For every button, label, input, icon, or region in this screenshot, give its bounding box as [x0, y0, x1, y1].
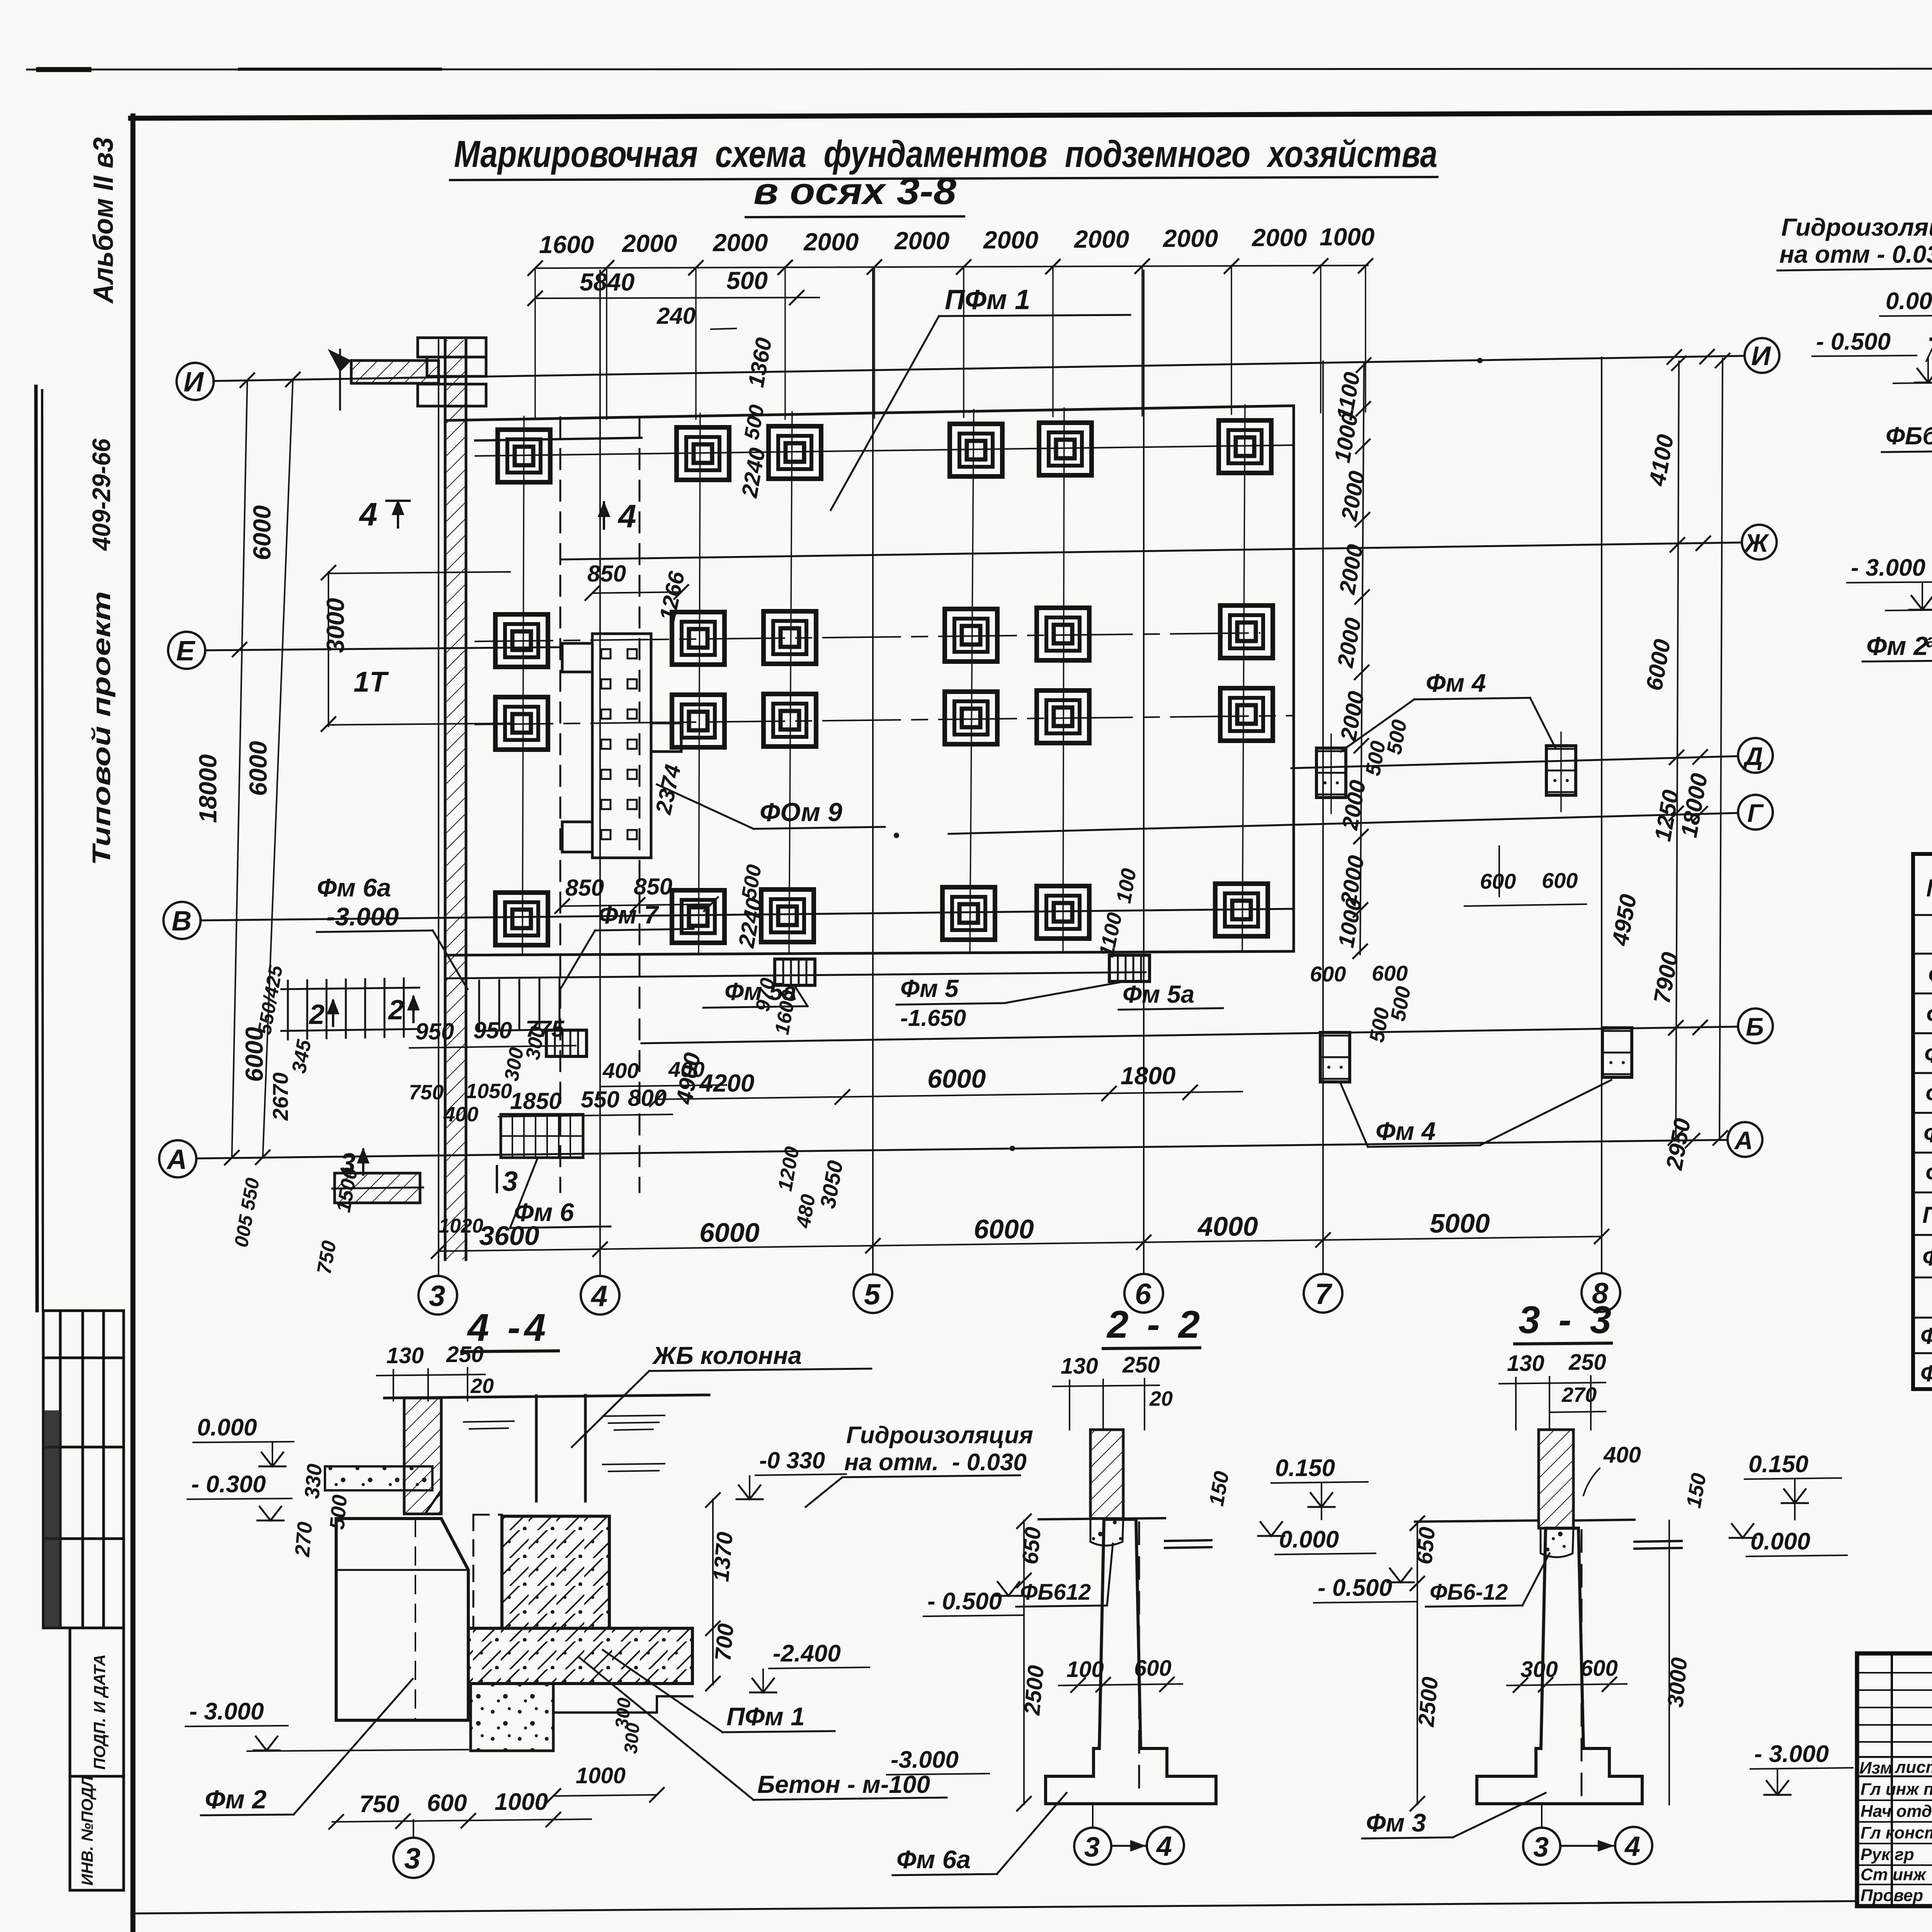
svg-text:- 0.300: - 0.300	[191, 1471, 266, 1498]
header bar arrow	[328, 349, 351, 372]
svg-text:Гидроизоляция: Гидроизоляция	[1781, 213, 1932, 241]
svg-text:Провер: Провер	[1861, 1886, 1923, 1905]
axis circle 4	[581, 1276, 619, 1315]
svg-text:4000: 4000	[1197, 1211, 1258, 1242]
svg-text:6000: 6000	[240, 1027, 268, 1082]
tail dot-dash on Г line left	[894, 833, 899, 838]
svg-text:0.150: 0.150	[1748, 1451, 1808, 1478]
svg-text:700: 700	[710, 1622, 738, 1662]
hatched bar on А left	[335, 1173, 420, 1203]
svg-text:0.000: 0.000	[1750, 1528, 1810, 1555]
svg-text:20: 20	[1149, 1387, 1173, 1410]
svg-text:Гидроизоляция: Гидроизоляция	[846, 1422, 1033, 1449]
axis line В	[201, 909, 1294, 920]
table row lines	[1913, 915, 1932, 1353]
foundation pads row Е upper	[495, 614, 548, 667]
svg-text:750: 750	[359, 1791, 399, 1818]
svg-text:ЖБ колонна: ЖБ колонна	[652, 1342, 802, 1369]
svg-text:1600: 1600	[539, 231, 594, 259]
floor line s22	[1039, 1518, 1165, 1519]
svg-text:1800: 1800	[1121, 1062, 1175, 1090]
axis circle В	[163, 902, 201, 939]
svg-text:4: 4	[1156, 1831, 1172, 1862]
axis 4 vertical	[599, 270, 601, 1275]
svg-text:500: 500	[325, 1494, 352, 1531]
svg-text:- 3.000: - 3.000	[1754, 1741, 1829, 1767]
svg-text:0.000: 0.000	[1279, 1526, 1339, 1553]
dimension 500 row2	[797, 297, 819, 298]
column lines	[536, 1395, 585, 1501]
svg-text:Нач отд: Нач отд	[1861, 1802, 1932, 1821]
concrete pedestal s44	[502, 1516, 609, 1628]
hatched pad Фм6	[501, 1114, 583, 1158]
svg-text:на отм. - 0.030: на отм. - 0.030	[844, 1449, 1027, 1476]
svg-text:650: 650	[1017, 1526, 1046, 1565]
svg-text:3050: 3050	[815, 1158, 848, 1210]
svg-text:409-29-66: 409-29-66	[87, 438, 116, 551]
svg-text:ПФм 1: ПФм 1	[726, 1702, 805, 1731]
svg-text:Гл инж пр.: Гл инж пр.	[1861, 1780, 1932, 1799]
svg-text:3: 3	[404, 1842, 420, 1875]
svg-text:0.000: 0.000	[1886, 288, 1932, 315]
inner frame top edge	[131, 110, 1932, 118]
svg-text:Фм 6а: Фм 6а	[317, 873, 391, 902]
svg-text:Д: Д	[1743, 742, 1763, 770]
table outer border	[1913, 854, 1932, 1389]
svg-text:600: 600	[1134, 1656, 1172, 1681]
svg-text:Маркировочная схема фундамен: Маркировочная схема фундаментов подземно…	[454, 133, 1437, 175]
svg-text:ПФм 1: ПФм 1	[945, 284, 1030, 315]
foundation profile s33	[1477, 1528, 1642, 1804]
svg-text:Типовой проект: Типовой проект	[87, 591, 116, 866]
svg-text:6000: 6000	[927, 1064, 986, 1094]
svg-text:3: 3	[1084, 1832, 1100, 1863]
svg-text:3000: 3000	[321, 598, 349, 653]
svg-text:Ж: Ж	[1743, 529, 1770, 557]
axis circle И right	[1745, 338, 1779, 373]
title block name rows	[1857, 1800, 1932, 1884]
svg-text:Фом 9: Фом 9	[1922, 1245, 1932, 1270]
pad row line Е lower	[475, 716, 1294, 724]
svg-text:-3.000: -3.000	[327, 902, 399, 931]
svg-text:850: 850	[634, 874, 672, 900]
leader ПФм1	[831, 316, 939, 510]
svg-text:18000: 18000	[194, 754, 222, 823]
dimension 5840 row2	[535, 298, 797, 298]
svg-text:345: 345	[288, 1038, 316, 1075]
svg-text:ФОм 9: ФОм 9	[760, 798, 842, 827]
svg-text:-3.000: -3.000	[891, 1747, 959, 1773]
axis line И	[213, 356, 1743, 381]
axis circle Ж	[1742, 525, 1777, 560]
svg-text:Фм 5А: Фм 5А	[1924, 1042, 1932, 1068]
svg-text:850: 850	[565, 875, 604, 901]
tail dot on А line	[1010, 1146, 1015, 1151]
svg-text:250: 250	[446, 1342, 484, 1367]
svg-text:Альбом II в3: Альбом II в3	[88, 137, 119, 304]
svg-text:4: 4	[1624, 1831, 1640, 1862]
svg-text:Фм 5а: Фм 5а	[1122, 980, 1194, 1008]
svg-text:Фм 6: Фм 6	[1925, 1082, 1932, 1107]
svg-text:Фом 11: Фом 11	[1920, 1361, 1932, 1386]
svg-text:4950: 4950	[1607, 892, 1641, 948]
svg-text:1266: 1266	[655, 569, 690, 623]
section 3-3 circle 4	[1615, 1827, 1652, 1864]
svg-text:950: 950	[415, 1019, 454, 1044]
section 1-1 ground line	[1931, 336, 1932, 339]
axis line Д	[1291, 756, 1738, 768]
axis 3 vertical	[438, 340, 439, 1275]
svg-text:4: 4	[359, 496, 378, 532]
svg-text:лист: лист	[1895, 1758, 1932, 1777]
Фм4 pads on Б	[1320, 1032, 1350, 1082]
svg-text:Фм 4: Фм 4	[1426, 668, 1486, 697]
svg-text:550/425: 550/425	[253, 963, 287, 1036]
svg-text:ФБ612: ФБ612	[1020, 1580, 1091, 1605]
svg-text:750: 750	[313, 1239, 341, 1276]
main title underline	[450, 177, 1437, 180]
svg-text:850: 850	[587, 561, 626, 587]
top dim extension verticals	[535, 265, 1366, 419]
arrow between circles s22	[1112, 1845, 1146, 1847]
axis circle А right	[1728, 1122, 1762, 1157]
axis circle 6	[1124, 1274, 1163, 1313]
plan outline right edge	[1293, 406, 1295, 951]
svg-text:в осях 3-8: в осях 3-8	[753, 170, 956, 212]
svg-text:005 550: 005 550	[230, 1176, 264, 1249]
axis line А	[196, 1140, 1728, 1158]
svg-text:Фм 5: Фм 5	[1926, 1002, 1932, 1028]
svg-text:- 0.500: - 0.500	[927, 1588, 1002, 1615]
bottom strip top line	[133, 1901, 1857, 1913]
mortar pocket s33	[1541, 1528, 1573, 1557]
hatched post s33	[1539, 1430, 1573, 1528]
wall hatched left	[404, 1398, 441, 1514]
svg-text:2000: 2000	[983, 226, 1038, 254]
water level marks	[464, 1415, 665, 1471]
svg-text:Фм 2: Фм 2	[1866, 631, 1928, 661]
chain B rotated dims	[1607, 432, 1713, 1172]
svg-text:2000: 2000	[1333, 616, 1366, 670]
svg-text:6000: 6000	[248, 505, 276, 560]
svg-text:4100: 4100	[1644, 432, 1679, 488]
mortar pocket s22	[1090, 1519, 1123, 1546]
svg-text:400: 400	[602, 1058, 639, 1083]
dim line 600 600 under Д pad	[1464, 904, 1586, 906]
bottom-left stamp cell grid	[43, 1311, 124, 1628]
section 4-4 circle 3	[393, 1838, 434, 1878]
small pad Фм5а on Б left	[546, 1030, 587, 1056]
foundation pads row Е lower	[495, 697, 548, 750]
axis circle 8	[1582, 1273, 1620, 1312]
svg-text:- 3.000: - 3.000	[189, 1698, 264, 1725]
title block left column lines	[1892, 1653, 1932, 1906]
svg-text:130: 130	[1507, 1351, 1544, 1376]
svg-text:4200: 4200	[699, 1069, 754, 1097]
svg-text:300: 300	[621, 1722, 644, 1755]
svg-text:3: 3	[340, 1148, 355, 1179]
svg-text:4: 4	[617, 498, 636, 534]
svg-text:3: 3	[1533, 1832, 1549, 1863]
pedestal dashed edge	[473, 1515, 502, 1628]
tail dot on И line	[1477, 358, 1483, 363]
svg-text:Фм 4: Фм 4	[1928, 962, 1932, 989]
svg-text:1360: 1360	[743, 336, 777, 389]
svg-text:7: 7	[1315, 1278, 1333, 1311]
plan outline top edge	[447, 406, 1294, 420]
svg-text:240: 240	[656, 303, 696, 329]
svg-text:250: 250	[1568, 1350, 1606, 1375]
svg-text:2000: 2000	[1163, 224, 1218, 252]
svg-text:2950: 2950	[1661, 1116, 1696, 1172]
svg-text:1000: 1000	[1330, 411, 1363, 464]
title block outer border	[1857, 1653, 1932, 1906]
foundation pads row В	[495, 893, 548, 945]
svg-text:1000: 1000	[1320, 223, 1374, 251]
lower bed s44	[471, 1684, 553, 1751]
svg-text:3 - 3: 3 - 3	[1519, 1298, 1615, 1342]
svg-text:1000: 1000	[1333, 896, 1367, 949]
rails right s33	[1634, 1541, 1682, 1542]
svg-text:500: 500	[726, 267, 768, 294]
svg-text:1850: 1850	[510, 1088, 561, 1114]
svg-text:5000: 5000	[1430, 1208, 1490, 1238]
cell Инв. № подл	[70, 1776, 124, 1890]
svg-text:600: 600	[1542, 868, 1578, 893]
left dim verticals	[232, 379, 293, 1158]
svg-text:ФБ6-12: ФБ6-12	[1430, 1580, 1508, 1605]
svg-text:Е: Е	[176, 636, 196, 667]
row1 dimension texts	[539, 223, 1374, 259]
svg-text:Марка: Марка	[1926, 874, 1932, 902]
title block header row line	[1857, 1756, 1932, 1758]
svg-text:500: 500	[1386, 985, 1415, 1023]
svg-text:6000: 6000	[974, 1214, 1034, 1244]
svg-text:2: 2	[308, 999, 325, 1030]
dashed service line x=1450	[560, 417, 561, 1192]
floor line s33	[1415, 1520, 1538, 1522]
floor ledge dotted	[325, 1466, 432, 1490]
hatched header bar on line И	[351, 361, 439, 383]
svg-text:Фм 7: Фм 7	[598, 900, 660, 929]
svg-text:ПОДП. И ДАТА: ПОДП. И ДАТА	[90, 1654, 109, 1770]
svg-text:Фм 6: Фм 6	[514, 1198, 575, 1226]
svg-text:750: 750	[409, 1081, 444, 1104]
svg-text:500: 500	[1383, 718, 1412, 756]
top dimension line row1	[535, 265, 1368, 268]
svg-text:В: В	[172, 906, 192, 937]
svg-text:на отм - 0.030: на отм - 0.030	[1779, 240, 1932, 268]
bottom-left stamp smudge	[44, 1410, 61, 1628]
pad row line Е upper	[475, 633, 1260, 641]
sheet top edge heavy dash left	[39, 67, 89, 72]
svg-text:2000: 2000	[622, 230, 677, 257]
svg-text:И: И	[1751, 341, 1771, 371]
svg-text:4: 4	[590, 1280, 607, 1313]
svg-text:400: 400	[1603, 1442, 1641, 1468]
svg-text:Фм 3: Фм 3	[1366, 1808, 1426, 1837]
svg-text:500: 500	[740, 403, 769, 441]
svg-text:2000: 2000	[1252, 224, 1307, 252]
svg-text:-2.400: -2.400	[773, 1640, 841, 1667]
svg-text:1050: 1050	[466, 1080, 512, 1103]
dashed service line x=1655	[639, 417, 641, 1192]
axis 7 vertical	[1322, 361, 1324, 1274]
small pads Фм5а / Фм5 row under В	[775, 959, 815, 985]
rail lines right s22	[1165, 1540, 1211, 1541]
svg-text:-0 330: -0 330	[759, 1447, 825, 1473]
axis line Б	[641, 1027, 1738, 1043]
axis circle И left	[177, 363, 214, 400]
svg-text:2000: 2000	[1337, 778, 1371, 832]
dim chain A vertical x=3530	[1360, 363, 1364, 954]
Фом9 perforated plate	[562, 634, 681, 858]
title block upper small rows	[1857, 1673, 1932, 1742]
axis circle 5	[854, 1274, 892, 1313]
svg-text:6000: 6000	[1641, 637, 1675, 692]
Фом9 plate holes	[601, 649, 637, 839]
cell Подп. и дата	[70, 1628, 124, 1776]
svg-text:650: 650	[1412, 1526, 1440, 1565]
svg-text:270: 270	[291, 1521, 317, 1558]
svg-text:Фм 2: Фм 2	[205, 1785, 267, 1814]
row1 tick marks	[528, 259, 1372, 275]
svg-text:ИНВ. №ПОДЛ: ИНВ. №ПОДЛ	[78, 1776, 96, 1886]
pad row line И	[475, 445, 1294, 456]
svg-text:600: 600	[1372, 961, 1408, 985]
svg-text:1Т: 1Т	[354, 666, 389, 698]
svg-text:950: 950	[473, 1017, 512, 1043]
svg-text:2000: 2000	[894, 227, 949, 255]
svg-text:Г: Г	[1747, 799, 1764, 827]
svg-text:- 3.000: - 3.000	[1851, 554, 1925, 581]
svg-text:Ст инж: Ст инж	[1861, 1865, 1927, 1884]
left complex ladder upper	[281, 978, 419, 1039]
svg-text:480: 480	[792, 1192, 820, 1230]
Фм4 pads on Д	[1316, 748, 1346, 798]
svg-text:2000: 2000	[713, 229, 768, 257]
svg-text:-1.650: -1.650	[900, 1005, 966, 1031]
svg-text:А: А	[166, 1144, 187, 1175]
svg-text:- 0.500: - 0.500	[1318, 1575, 1392, 1601]
svg-text:250: 250	[1122, 1352, 1160, 1378]
axis circle 7	[1304, 1274, 1342, 1313]
plan secondary bottom line	[447, 972, 1146, 978]
svg-text:130: 130	[386, 1343, 424, 1368]
svg-text:5: 5	[864, 1278, 881, 1311]
svg-text:ПФм 1: ПФм 1	[1922, 1202, 1932, 1228]
axis 6 vertical	[1143, 270, 1145, 1274]
section 3-3 circle 3	[1523, 1828, 1560, 1865]
axis line Г	[949, 813, 1738, 834]
plan outline inner top wall	[475, 438, 641, 440]
svg-text:600: 600	[1310, 962, 1346, 986]
svg-text:2000: 2000	[1337, 469, 1370, 523]
sheet left outer edge double line	[36, 386, 37, 1311]
svg-text:3: 3	[429, 1280, 445, 1313]
hatched post s22	[1090, 1430, 1123, 1519]
svg-text:Фм 6а: Фм 6а	[896, 1845, 971, 1874]
svg-text:2: 2	[388, 995, 404, 1026]
axis line Ж	[560, 543, 1742, 560]
svg-text:2240: 2240	[737, 446, 770, 500]
axis line Е	[205, 647, 558, 650]
svg-text:Фм 5: Фм 5	[900, 975, 959, 1002]
svg-text:Б: Б	[1746, 1012, 1764, 1041]
axis circle Е	[168, 632, 205, 669]
svg-text:6000: 6000	[244, 741, 272, 796]
dim chain B verticals	[1676, 361, 1679, 1140]
svg-text:0.000: 0.000	[197, 1414, 257, 1441]
axis circle 3	[418, 1276, 457, 1315]
svg-text:Фм 7: Фм 7	[1925, 1161, 1932, 1187]
big block Фм2 s44	[336, 1519, 468, 1720]
svg-text:3000: 3000	[1663, 1656, 1692, 1708]
svg-text:400: 400	[443, 1103, 478, 1126]
pad column centerlines	[522, 405, 1245, 954]
foundation profile s22	[1046, 1519, 1216, 1804]
svg-text:2 - 2: 2 - 2	[1106, 1303, 1204, 1346]
svg-text:800: 800	[628, 1085, 667, 1111]
inner frame left edge	[131, 116, 136, 1932]
left complex ladder right of trench	[479, 979, 560, 1031]
svg-text:ФБб-11: ФБб-11	[1886, 422, 1932, 450]
svg-text:150: 150	[1205, 1469, 1234, 1508]
svg-text:Рук гр: Рук гр	[1861, 1845, 1914, 1864]
dim 3000 bracket	[328, 572, 510, 726]
svg-text:20: 20	[470, 1374, 494, 1398]
foundation pads row И	[498, 430, 550, 482]
svg-text:а: а	[1926, 631, 1932, 651]
svg-text:6000: 6000	[699, 1218, 760, 1248]
section 2-2 circle 3	[1074, 1828, 1111, 1865]
svg-text:600: 600	[427, 1790, 467, 1816]
plan outline bottom edge	[447, 951, 1294, 955]
svg-text:Гл констр: Гл констр	[1861, 1823, 1932, 1842]
svg-text:И: И	[184, 367, 204, 398]
svg-text:600: 600	[1580, 1656, 1618, 1681]
svg-text:330: 330	[300, 1463, 327, 1500]
slab ПФм1 s44	[468, 1628, 692, 1684]
svg-text:Фм6 А: Фм6 А	[1923, 1121, 1932, 1147]
svg-text:600: 600	[1480, 869, 1516, 893]
svg-text:2000: 2000	[803, 228, 859, 256]
svg-text:- 0.500: - 0.500	[1816, 328, 1891, 355]
corbel	[404, 1490, 441, 1514]
bottom dimension line	[439, 1236, 1602, 1251]
svg-text:775: 775	[526, 1016, 565, 1042]
axis circle Г	[1738, 795, 1773, 830]
sheet top edge line	[27, 68, 1932, 70]
axis 8 vertical	[1601, 357, 1602, 1273]
Фм4 pad centerlines on Д	[1331, 732, 1561, 813]
svg-text:Фом 10: Фом 10	[1920, 1323, 1932, 1349]
svg-text:А: А	[1734, 1126, 1753, 1155]
ground hatch left	[1926, 341, 1932, 361]
svg-text:3: 3	[502, 1166, 518, 1197]
section 4-4 floor line	[384, 1395, 709, 1398]
svg-text:2670: 2670	[268, 1072, 293, 1121]
svg-text:100: 100	[1112, 867, 1141, 905]
svg-text:1000: 1000	[576, 1763, 626, 1788]
svg-text:130: 130	[1061, 1354, 1098, 1379]
axis circle А left	[159, 1140, 196, 1177]
axis circle Д	[1738, 738, 1773, 773]
svg-text:0.150: 0.150	[1275, 1455, 1335, 1481]
axis circle Б	[1738, 1009, 1773, 1043]
section 2-2 circle 4	[1147, 1827, 1184, 1864]
svg-text:Фм 4: Фм 4	[1376, 1117, 1435, 1145]
